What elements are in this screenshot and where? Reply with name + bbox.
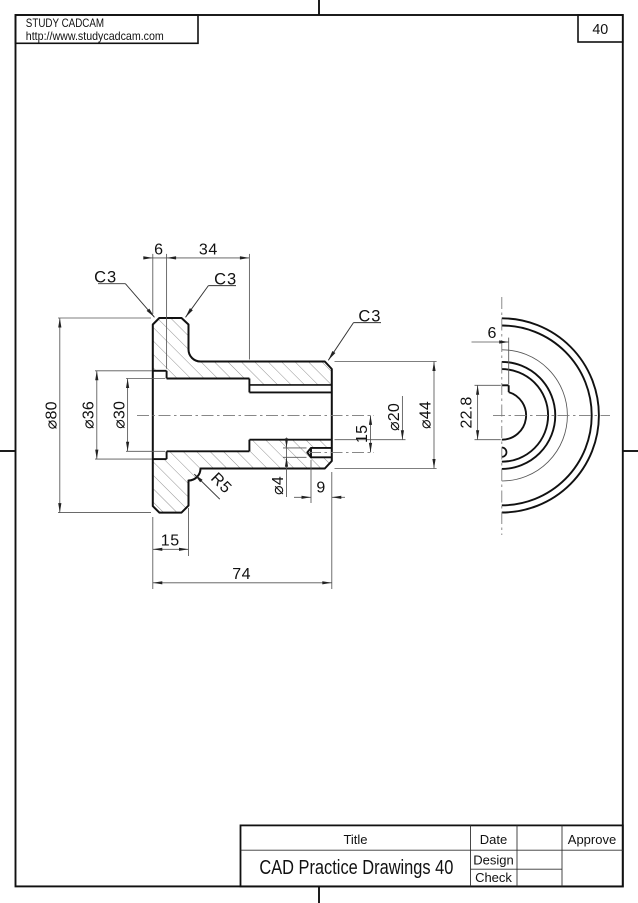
- svg-text:⌀36: ⌀36: [81, 401, 98, 429]
- svg-text:⌀20: ⌀20: [386, 403, 403, 431]
- svg-text:C3: C3: [94, 269, 117, 287]
- svg-text:STUDY CADCAM: STUDY CADCAM: [26, 16, 104, 30]
- svg-text:CAD Practice Drawings 40: CAD Practice Drawings 40: [259, 857, 453, 879]
- svg-text:40: 40: [592, 22, 608, 38]
- svg-text:http://www.studycadcam.com: http://www.studycadcam.com: [26, 29, 164, 43]
- svg-text:6: 6: [488, 325, 497, 342]
- svg-text:⌀80: ⌀80: [44, 401, 61, 429]
- svg-text:9: 9: [316, 480, 325, 497]
- svg-text:74: 74: [232, 566, 251, 583]
- svg-text:Approve: Approve: [568, 832, 616, 847]
- svg-text:Title: Title: [343, 832, 367, 847]
- svg-text:15: 15: [161, 532, 180, 549]
- svg-text:6: 6: [154, 241, 163, 258]
- svg-text:Date: Date: [480, 832, 507, 847]
- svg-text:Check: Check: [475, 870, 512, 885]
- svg-text:Design: Design: [473, 852, 513, 867]
- svg-text:⌀30: ⌀30: [111, 401, 128, 429]
- svg-text:⌀4: ⌀4: [270, 476, 287, 495]
- svg-text:15: 15: [354, 425, 371, 443]
- svg-text:34: 34: [199, 241, 218, 258]
- svg-text:C3: C3: [214, 271, 237, 289]
- svg-text:C3: C3: [358, 308, 381, 326]
- svg-text:⌀44: ⌀44: [418, 401, 435, 429]
- svg-text:22.8: 22.8: [459, 397, 476, 429]
